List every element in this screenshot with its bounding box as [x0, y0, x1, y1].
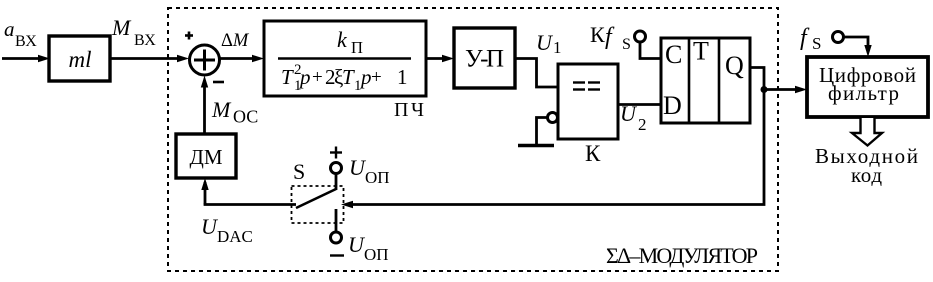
block ml [49, 36, 110, 81]
wire DAC to DM [204, 182, 207, 205]
block PCH transfer function [264, 21, 426, 96]
dashed modulator boundary [168, 8, 778, 271]
comparator K [558, 64, 618, 139]
minus polarity [330, 254, 344, 256]
label minus [213, 81, 224, 84]
svg-text:D: D [663, 91, 682, 120]
svg-text:ДМ: ДМ [190, 145, 223, 169]
wire summer to PCH [220, 57, 254, 60]
switch arm [296, 189, 336, 208]
svg-text:p: p [298, 65, 311, 89]
junction dot [761, 86, 768, 93]
flip-flop T [661, 38, 750, 123]
switch dashed box [292, 186, 344, 223]
sampling terminal circle [833, 32, 844, 43]
svg-text:DAC: DAC [217, 227, 253, 246]
svg-text:+: + [371, 67, 382, 88]
top reference terminal [331, 163, 342, 174]
svg-text:фильтр: фильтр [828, 81, 899, 105]
svg-text:П: П [351, 38, 363, 57]
wire PCH to U-P [426, 57, 444, 60]
label plus [185, 34, 193, 37]
wire comparator to D [618, 103, 661, 106]
bottom reference terminal [331, 232, 342, 243]
svg-text:ОП: ОП [365, 168, 390, 187]
svg-text:ВХ: ВХ [134, 32, 156, 49]
svg-text:p: p [359, 65, 372, 89]
bottom contact stub [335, 209, 338, 232]
svg-text:S: S [622, 36, 631, 53]
clock terminal circle [635, 31, 646, 42]
svg-text:код: код [851, 163, 882, 187]
svg-text:T: T [693, 37, 709, 66]
wire to digital filter [764, 88, 797, 91]
svg-text:k: k [337, 27, 348, 52]
summing junction [190, 45, 220, 75]
svg-text:T: T [281, 65, 294, 89]
svg-text:C: C [665, 40, 682, 69]
wire DM to summer [203, 80, 206, 134]
output hollow arrow [852, 118, 882, 146]
block U-P [454, 28, 515, 88]
svg-text:1: 1 [553, 38, 562, 57]
svg-text:ΔM: ΔM [221, 31, 250, 51]
svg-text:M: M [211, 97, 232, 122]
ground [537, 118, 548, 145]
wire ml to summer [110, 57, 179, 60]
svg-text:S: S [812, 34, 821, 53]
block DM [176, 134, 236, 178]
svg-text:К: К [585, 141, 601, 166]
svg-text:2: 2 [638, 115, 647, 134]
svg-text:U: U [620, 101, 638, 126]
wire U-P to comparator [515, 59, 558, 88]
svg-text:M: M [111, 15, 132, 40]
feedback wire [351, 90, 764, 205]
svg-text:К: К [590, 22, 605, 47]
svg-text:a: a [4, 17, 15, 41]
wire clock to C [640, 42, 661, 59]
svg-text:+: + [312, 67, 323, 88]
wire input arrow [2, 57, 40, 60]
svg-text:S: S [293, 159, 305, 184]
plus polarity [330, 151, 342, 153]
svg-text:У-П: У-П [465, 46, 504, 73]
wire Q output [750, 68, 764, 90]
svg-text:ΣΔ–МОДУЛЯТОР: ΣΔ–МОДУЛЯТОР [606, 243, 758, 268]
svg-text:ОП: ОП [364, 245, 389, 264]
svg-text:ВХ: ВХ [15, 33, 37, 50]
svg-text:ml: ml [69, 47, 92, 72]
block digital filter [807, 57, 928, 117]
svg-text:U: U [536, 30, 554, 55]
fraction bar [278, 57, 411, 59]
wire f_S to filter [844, 37, 869, 48]
svg-text:Q: Q [725, 51, 744, 80]
svg-text:ОС: ОС [233, 107, 258, 127]
svg-text:1: 1 [397, 65, 408, 89]
inversion bubble [548, 113, 558, 123]
